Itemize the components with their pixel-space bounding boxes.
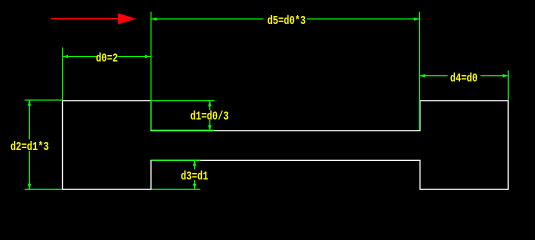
svg-text:d5=d0*3: d5=d0*3 bbox=[267, 15, 305, 29]
svg-text:d0=2: d0=2 bbox=[96, 53, 118, 67]
svg-text:d3=d1: d3=d1 bbox=[181, 171, 209, 185]
svg-text:d2=d1*3: d2=d1*3 bbox=[10, 141, 48, 155]
svg-text:d4=d0: d4=d0 bbox=[450, 73, 477, 87]
svg-text:d1=d0/3: d1=d0/3 bbox=[190, 111, 228, 125]
